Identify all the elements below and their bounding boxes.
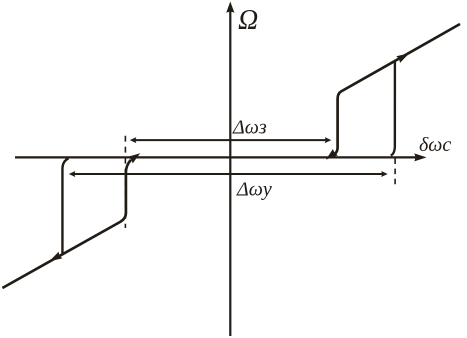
omega axis (vertical)	[229, 11, 231, 336]
curve: jump-down arrowhead on diagonal	[49, 252, 62, 261]
delta-omega-c axis (horizontal)	[15, 156, 416, 158]
dashed guide line left	[124, 136, 126, 228]
curve: rise-to-axis arrowhead	[128, 153, 140, 163]
curve: right diagonal branch with drop to axis	[334, 24, 460, 155]
omega axis arrowhead	[226, 2, 234, 13]
svg-text:Δωу: Δωу	[236, 178, 272, 200]
curve: left diagonal branch with rise to axis	[2, 160, 131, 288]
capture-zone left arrowhead	[130, 137, 137, 143]
hold-zone left arrowhead	[69, 171, 76, 177]
svg-text:Δωз: Δωз	[232, 116, 267, 138]
svg-text:Ω: Ω	[238, 5, 258, 36]
svg-text:δωc: δωc	[419, 134, 451, 156]
hold-zone right arrowhead	[381, 171, 388, 177]
capture-zone right arrowhead	[325, 137, 332, 143]
curve: drop-to-axis arrowhead	[326, 149, 338, 160]
delta-omega-c axis arrowhead	[414, 153, 426, 161]
curve: jump-up arrowhead on diagonal	[396, 53, 409, 63]
hold-zone measure line (delta-omega-y)	[73, 173, 385, 175]
curve: right jump-up segment	[391, 62, 395, 156]
curve: left jump-down segment	[62, 158, 68, 254]
dashed guide line right	[394, 159, 396, 186]
capture-zone measure line (delta-omega-3)	[133, 139, 327, 141]
